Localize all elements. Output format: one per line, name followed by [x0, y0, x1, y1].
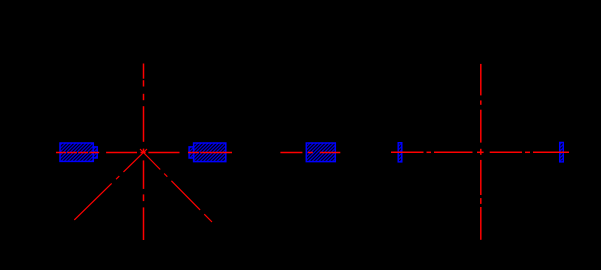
left diagonal centerline (down-left): [74, 149, 147, 220]
right cross horizontal centerline: [391, 151, 569, 153]
hatched block middle: [306, 143, 335, 162]
thin hatched washer right: [560, 142, 564, 162]
thin hatched washer left: [398, 143, 402, 162]
right cross vertical centerline: [480, 64, 482, 240]
hatched insert block right (main body): [194, 143, 226, 162]
hatched insert block right (step): [189, 147, 194, 158]
hatched insert block left (main body): [60, 143, 93, 161]
left horizontal centerline: [56, 152, 232, 154]
hatched insert block left (step): [93, 147, 97, 158]
right diagonal centerline (down-right): [140, 149, 212, 222]
middle horizontal centerline: [280, 152, 340, 154]
left vertical centerline: [143, 64, 145, 241]
